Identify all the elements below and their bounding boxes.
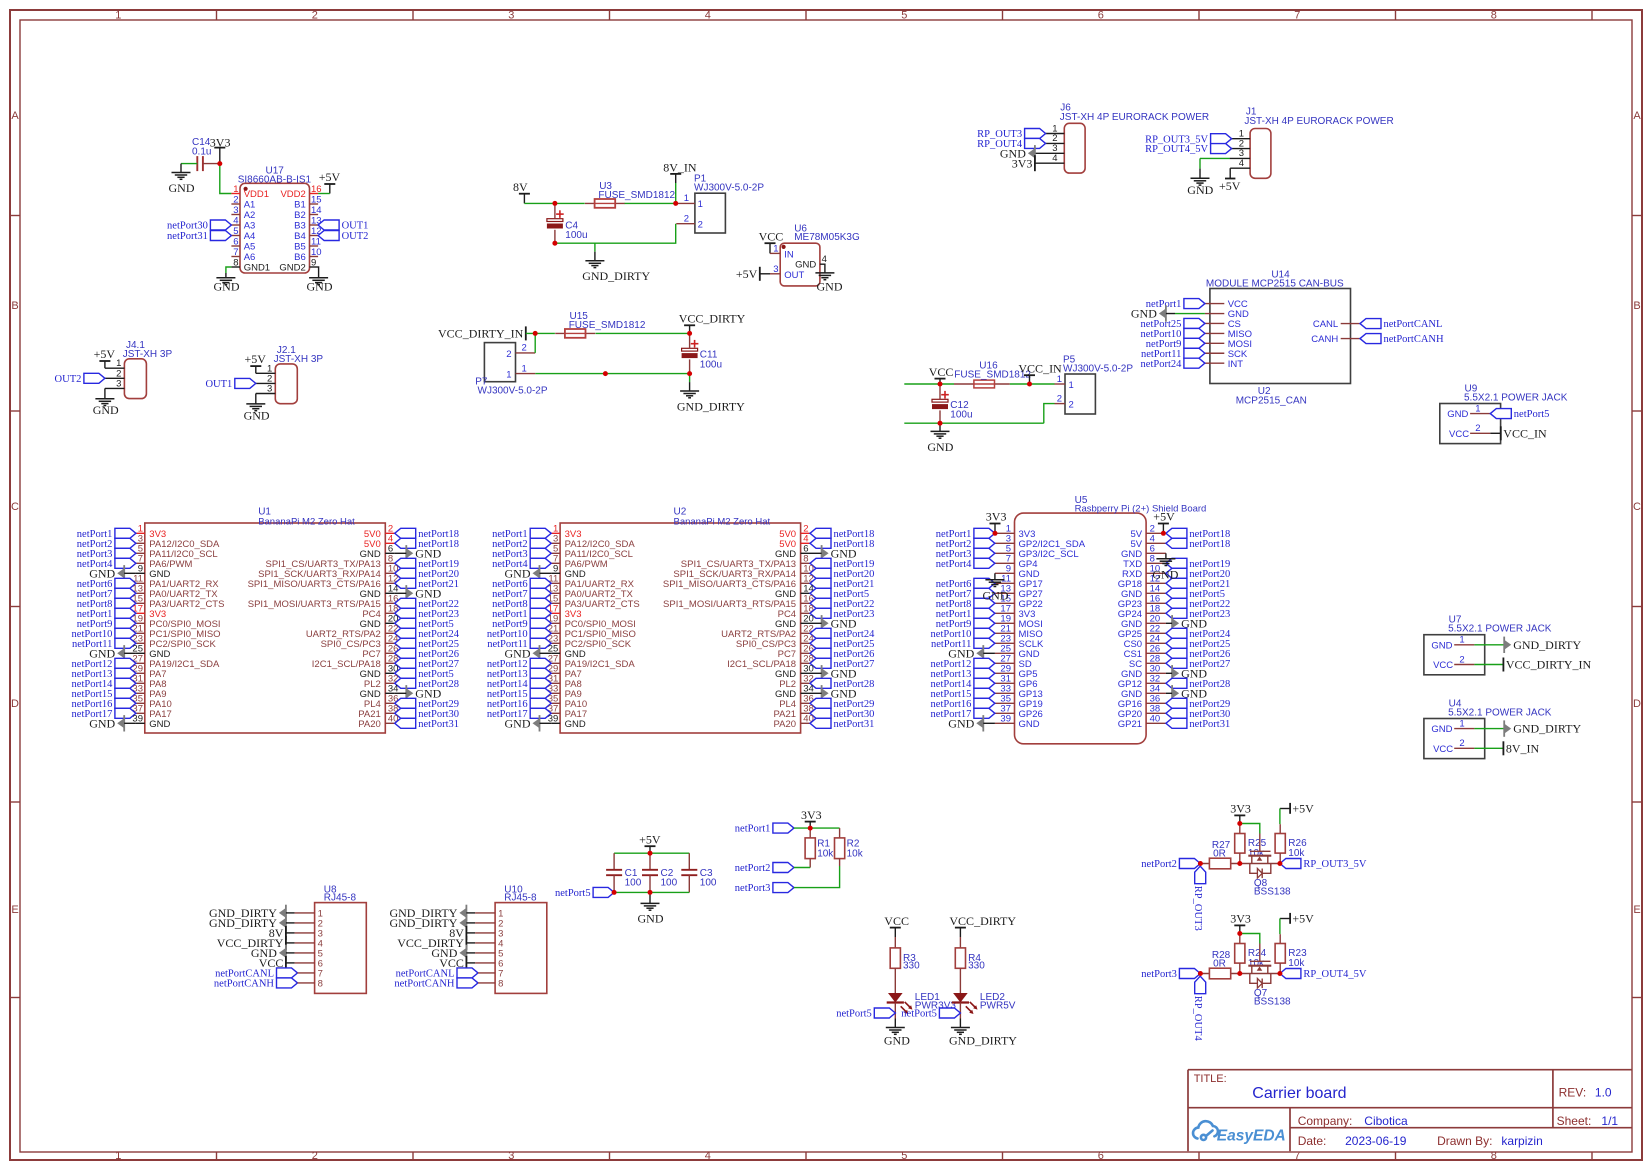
junction [1027, 382, 1032, 387]
power flag +5V [645, 845, 656, 847]
svg-text:E: E [11, 904, 18, 916]
power flag 8V [285, 926, 287, 940]
net port netPort2 [773, 863, 794, 873]
resistor R3 [894, 937, 896, 948]
power flag 3V3 [1234, 924, 1245, 926]
svg-text:6: 6 [1098, 10, 1104, 22]
svg-text:3: 3 [508, 1150, 514, 1162]
net port netPort28 [810, 678, 831, 688]
net port netPort15 [115, 688, 136, 698]
pin 12 B4 [310, 235, 319, 237]
svg-text:MODULE MCP2515 CAN-BUS: MODULE MCP2515 CAN-BUS [1206, 279, 1344, 290]
net port netPort11 [530, 638, 551, 648]
pin 27 PA19/I2C1_SDA [551, 662, 560, 664]
svg-text:3: 3 [773, 264, 778, 275]
net port netPort24 [1166, 628, 1187, 638]
pin 8 SPI1_CS/UART3_TX/PA13 [385, 562, 394, 564]
svg-text:9: 9 [311, 257, 316, 268]
net port RP_OUT3_5V [1280, 859, 1301, 869]
svg-text:+5V: +5V [1292, 801, 1314, 815]
net port netPort1 [974, 608, 995, 618]
net port RP_OUT4 [1195, 976, 1206, 994]
pin 15 PA3/UART2_CTS [136, 602, 145, 604]
net port netPort25 [395, 638, 416, 648]
fuse U16 FUSE_SMD1812 [954, 383, 1010, 385]
net port netPort29 [1166, 698, 1187, 708]
net port RP_OUT4_5V [1211, 144, 1232, 154]
svg-text:GND: GND [1187, 183, 1213, 197]
svg-text:8: 8 [318, 979, 323, 990]
junction [1237, 931, 1242, 936]
net port netPort23 [810, 608, 831, 618]
net port netPort17 [115, 708, 136, 718]
svg-text:100: 100 [661, 878, 678, 889]
pin 22 UART2_RTS/PA2 [801, 632, 810, 634]
wire [298, 972, 315, 974]
net port netPort18 [395, 528, 416, 538]
wire [614, 891, 689, 893]
net port netPort5 [395, 618, 416, 628]
wire [810, 552, 822, 554]
pin 2 [1232, 148, 1251, 150]
net port netPortCANL [1360, 319, 1381, 329]
svg-text:WJ300V-5.0-2P: WJ300V-5.0-2P [478, 386, 548, 397]
svg-text:3V3: 3V3 [801, 808, 822, 822]
svg-text:1: 1 [1057, 374, 1062, 385]
pin 1 IN [769, 243, 771, 253]
connector P7 WJ300V-5.0-2P [484, 343, 515, 382]
wire [675, 183, 677, 203]
svg-text:3V3: 3V3 [1230, 802, 1251, 816]
pin 4 5V0 [801, 542, 810, 544]
power flag +5V [1289, 913, 1291, 924]
net port netPort2 [974, 538, 995, 548]
svg-text:1: 1 [522, 363, 527, 374]
resistor R28 [1209, 968, 1230, 979]
pin 14 GND [385, 592, 394, 594]
svg-text:netPort31: netPort31 [1189, 719, 1230, 730]
svg-text:6: 6 [233, 236, 238, 247]
pin 33 PA9 [136, 692, 145, 694]
svg-text:+5V: +5V [319, 170, 341, 184]
pin 21 PC1/SPI0_MISO [551, 632, 560, 634]
resistor R2 [839, 828, 841, 838]
svg-text:0R: 0R [1213, 849, 1226, 860]
svg-text:10k: 10k [1248, 848, 1265, 859]
resistor R4 [959, 937, 961, 948]
power flag 8V_IN [1502, 741, 1504, 755]
wire [596, 332, 690, 334]
net port netPort18 [1166, 528, 1187, 538]
connector U9 5.5X2.1 POWER JACK [1440, 404, 1501, 444]
ground [226, 267, 232, 273]
net port netPort2 [1179, 859, 1200, 869]
svg-text:5.5X2.1 POWER JACK: 5.5X2.1 POWER JACK [1464, 392, 1568, 403]
pin 4 [1230, 167, 1250, 169]
net port netPort20 [395, 568, 416, 578]
junction [938, 382, 943, 387]
svg-text:B: B [1633, 300, 1640, 312]
svg-text:FUSE_SMD1812: FUSE_SMD1812 [598, 190, 675, 201]
pin 7 PA6/PWM [551, 562, 560, 564]
net port netPort2 [530, 538, 551, 548]
wire [794, 867, 810, 869]
svg-text:4: 4 [822, 254, 827, 265]
pin 2 [676, 223, 695, 225]
pin 29 GP5 [995, 672, 1015, 674]
net port netPort1 [773, 823, 794, 833]
svg-text:WJ300V-5.0-2P: WJ300V-5.0-2P [1063, 363, 1133, 374]
net port RP_OUT3 [1025, 129, 1046, 139]
svg-text:karpizin: karpizin [1501, 1134, 1542, 1148]
pin 3 [256, 393, 275, 395]
svg-text:GND: GND [1431, 724, 1452, 735]
pin 25 GND [995, 652, 1015, 654]
net port OUT2 [84, 373, 105, 383]
svg-text:B6: B6 [294, 252, 306, 263]
power flag 3V3 [805, 821, 816, 823]
net port netPort11 [974, 638, 995, 648]
svg-text:8V_IN: 8V_IN [1506, 741, 1540, 755]
capacitor C3 [688, 853, 690, 870]
net port netPort5 [939, 1008, 960, 1018]
net port netPort29 [395, 698, 416, 708]
svg-text:WJ300V-5.0-2P: WJ300V-5.0-2P [694, 183, 764, 194]
junction [938, 421, 943, 426]
wire [466, 922, 475, 924]
svg-text:GND_DIRTY: GND_DIRTY [389, 916, 457, 930]
svg-text:SPI1_MOSI/UART3_RTS/PA15: SPI1_MOSI/UART3_RTS/PA15 [248, 599, 381, 610]
svg-text:A1: A1 [244, 200, 256, 211]
pin 1 VCC [1205, 303, 1224, 305]
net port netPort9 [115, 618, 136, 628]
gnd flag GND [405, 685, 407, 701]
pin 1 [1035, 133, 1064, 135]
ground [815, 272, 834, 274]
svg-text:RP_OUT4_5V: RP_OUT4_5V [1303, 969, 1366, 980]
pin 22 GP25 [1146, 632, 1166, 634]
pin 3 [1035, 152, 1064, 154]
net port netPort21 [1166, 578, 1187, 588]
svg-text:5.5X2.1 POWER JACK: 5.5X2.1 POWER JACK [1448, 707, 1552, 718]
gnd flag GND [405, 585, 407, 601]
svg-text:A3: A3 [244, 221, 256, 232]
pin 31 PA8 [136, 682, 145, 684]
capacitor C14 [196, 156, 198, 171]
net port netPort9 [1184, 338, 1205, 348]
pin 39 GND [551, 722, 560, 724]
pin 14 GND [1146, 592, 1166, 594]
pin 36 GP16 [1146, 702, 1166, 704]
pin 13 PA0/UART2_TX [136, 592, 145, 594]
svg-text:VCC_DIRTY_IN: VCC_DIRTY_IN [438, 326, 524, 340]
LED LED2 [953, 993, 968, 1003]
svg-text:2023-06-19: 2023-06-19 [1345, 1134, 1407, 1148]
net port netPort17 [974, 708, 995, 718]
connector J4.1 JST-XH 3P [124, 359, 146, 399]
pin 2 VCC [1454, 747, 1474, 749]
ground [104, 388, 106, 398]
svg-text:GND: GND [1019, 719, 1040, 730]
wire [794, 866, 840, 888]
wire [904, 422, 1044, 424]
svg-text:2: 2 [1459, 738, 1464, 749]
pin 23 PC2/SPI0_SCK [136, 642, 145, 644]
power flag VCC [765, 242, 776, 244]
net port netPort24 [395, 628, 416, 638]
svg-text:netPort4: netPort4 [936, 559, 972, 570]
net port netPort3 [773, 883, 794, 893]
net port netPort19 [395, 558, 416, 568]
svg-text:C: C [11, 501, 19, 513]
svg-text:+5V: +5V [639, 832, 661, 846]
pin 9 GND2 [310, 266, 319, 268]
net port netPort18 [810, 528, 831, 538]
svg-text:TITLE:: TITLE: [1194, 1073, 1227, 1085]
wire [1166, 672, 1172, 674]
net port OUT2 [318, 231, 339, 241]
svg-text:netPortCANH: netPortCANH [1384, 334, 1445, 345]
net port netPort19 [1166, 558, 1187, 568]
svg-text:+5V: +5V [94, 347, 116, 361]
pin 23 PC2/SPI0_SCK [551, 642, 560, 644]
junction [612, 890, 617, 895]
svg-text:VCC_DIRTY: VCC_DIRTY [949, 914, 1016, 928]
wire [286, 932, 295, 934]
wire [478, 982, 495, 984]
svg-text:3: 3 [116, 378, 121, 389]
pin 28 SC [1146, 662, 1166, 664]
wire [1474, 747, 1503, 749]
wire [1279, 919, 1281, 935]
junction [552, 241, 557, 246]
wire [1474, 728, 1504, 730]
net port netPort21 [395, 578, 416, 588]
wire [466, 912, 475, 914]
power flag +5V [250, 365, 261, 367]
pin 1 GND [1470, 413, 1490, 415]
svg-text:B4: B4 [294, 231, 306, 242]
net port netPort12 [974, 658, 995, 668]
power flag VCC_DIRTY [955, 927, 966, 929]
gnd flag GND [285, 945, 287, 961]
svg-text:OUT1: OUT1 [342, 221, 369, 232]
svg-text:GND: GND [983, 589, 1009, 603]
net port netPort30 [810, 708, 831, 718]
gnd flag GND_DIRTY [465, 905, 467, 921]
pin 1 [105, 367, 125, 369]
wire [540, 722, 552, 724]
wire [535, 373, 689, 375]
wire [124, 572, 136, 574]
svg-text:INT: INT [1228, 359, 1244, 370]
svg-text:8: 8 [498, 979, 503, 990]
net port netPort14 [974, 678, 995, 688]
svg-text:GND: GND [565, 719, 586, 730]
svg-text:GND_DIRTY: GND_DIRTY [209, 916, 277, 930]
pin 8 SPI1_CS/UART3_TX/PA13 [801, 562, 810, 564]
pin 15 PA3/UART2_CTS [551, 602, 560, 604]
svg-text:B1: B1 [294, 200, 306, 211]
junction [648, 851, 653, 856]
pin 18 GP24 [1146, 612, 1166, 614]
ground [1199, 158, 1201, 168]
svg-text:2: 2 [684, 214, 689, 225]
svg-text:10k: 10k [1288, 958, 1305, 969]
svg-text:GND: GND [89, 716, 115, 730]
wire [1010, 383, 1055, 385]
ground [649, 892, 651, 903]
svg-text:330: 330 [968, 960, 985, 971]
net port netPort23 [1166, 608, 1187, 618]
pin 3 PA12/I2C0_SDA [551, 542, 560, 544]
junction [1198, 861, 1203, 866]
svg-text:VCC_DIRTY_IN: VCC_DIRTY_IN [1506, 658, 1592, 672]
pin 5 MOSI [1205, 342, 1224, 344]
pin 38 PA21 [385, 712, 394, 714]
wire [286, 952, 295, 954]
svg-text:netPort31: netPort31 [834, 719, 875, 730]
net port netPort7 [115, 588, 136, 598]
net port netPort1 [530, 608, 551, 618]
gnd flag GND [821, 685, 823, 701]
pin 8 TXD [1146, 562, 1166, 564]
pin 7 INT [1205, 362, 1224, 364]
net port netPort8 [974, 598, 995, 608]
svg-text:GND_DIRTY: GND_DIRTY [949, 1034, 1017, 1048]
svg-text:+5V: +5V [1219, 179, 1241, 193]
svg-text:3: 3 [233, 205, 238, 216]
svg-text:8: 8 [1491, 10, 1497, 22]
svg-text:BSS138: BSS138 [1254, 997, 1291, 1008]
svg-text:3: 3 [508, 10, 514, 22]
net port netPort20 [810, 568, 831, 578]
net port netPort4 [115, 558, 136, 568]
svg-text:GP21: GP21 [1118, 719, 1142, 730]
gnd flag GND [1165, 305, 1167, 321]
svg-text:JST-XH 3P: JST-XH 3P [123, 349, 173, 360]
junction [1237, 861, 1242, 866]
ground GND [894, 1019, 896, 1028]
pin 37 PA17 [551, 712, 560, 714]
net port netPort15 [974, 688, 995, 698]
svg-text:GND: GND [1152, 568, 1178, 582]
svg-text:netPort3: netPort3 [735, 883, 771, 894]
svg-text:2: 2 [506, 349, 511, 360]
pin 16 GP23 [1146, 602, 1166, 604]
pin 17 3V3 [136, 612, 145, 614]
svg-text:7: 7 [233, 247, 238, 258]
svg-text:RP_OUT4: RP_OUT4 [1192, 996, 1203, 1042]
pin 20 GND [385, 622, 394, 624]
net port netPort27 [810, 658, 831, 668]
pin 5 GP3/I2C_SCL [995, 552, 1015, 554]
connector U8 RJ45-8 [315, 903, 367, 994]
svg-text:8V: 8V [513, 180, 528, 194]
svg-text:8: 8 [233, 257, 238, 268]
net port netPort14 [530, 678, 551, 688]
pin 10 SPI1_SCK/UART3_RX/PA14 [801, 572, 810, 574]
svg-text:OUT2: OUT2 [55, 374, 82, 385]
pin 3 PA12/I2C0_SDA [136, 542, 145, 544]
svg-text:1: 1 [1069, 380, 1074, 391]
junction [687, 331, 692, 336]
svg-text:GND: GND [214, 279, 240, 293]
junction [673, 201, 678, 206]
ground [994, 573, 996, 579]
svg-text:SI8660AB-B-IS1: SI8660AB-B-IS1 [238, 175, 312, 186]
pin 1 3V3 [551, 532, 560, 534]
net port netPort20 [1166, 568, 1187, 578]
gnd flag GND [123, 715, 125, 731]
svg-text:A6: A6 [244, 252, 256, 263]
net port netPort16 [530, 698, 551, 708]
pin 26 PC7 [385, 652, 394, 654]
svg-text:3V3: 3V3 [986, 510, 1007, 524]
gnd flag GND [405, 545, 407, 561]
net port netPort6 [974, 578, 995, 588]
pin 17 3V3 [995, 612, 1015, 614]
svg-text:1.0: 1.0 [1595, 1086, 1612, 1100]
net port netPort25 [810, 638, 831, 648]
pin 9 GND [995, 572, 1015, 574]
net port netPort27 [1166, 658, 1187, 668]
net port netPort26 [395, 648, 416, 658]
pin 24 SPI0_CS/PC3 [801, 642, 810, 644]
power flag 3V3 [214, 147, 225, 149]
pin 34 GND [385, 692, 394, 694]
gnd flag GND [821, 615, 823, 631]
junction [1237, 821, 1242, 826]
pin 11 PA1/UART2_RX [136, 582, 145, 584]
net port netPort5 [810, 588, 831, 598]
svg-text:netPort2: netPort2 [1141, 859, 1177, 870]
pin 30 GND [1146, 672, 1166, 674]
svg-text:A: A [1633, 110, 1641, 122]
net port netPort22 [395, 598, 416, 608]
power flag +5V [1229, 168, 1231, 178]
svg-text:PWR5V: PWR5V [980, 1000, 1016, 1011]
svg-text:MCP2515_CAN: MCP2515_CAN [1236, 395, 1307, 406]
svg-text:BSS138: BSS138 [1254, 887, 1291, 898]
junction [687, 371, 692, 376]
pin 6 SCK [1205, 352, 1224, 354]
connector J1 JST-XH 4P EURORACK POWER [1250, 129, 1271, 179]
svg-text:2: 2 [1459, 654, 1464, 665]
svg-text:Company:: Company: [1298, 1114, 1353, 1128]
power flag 8V [465, 926, 467, 940]
net port netPort5 [1166, 588, 1187, 598]
ground GND_DIRTY [594, 243, 596, 252]
pin 5 A4 [231, 235, 240, 237]
net port netPort5 [593, 887, 614, 897]
svg-text:GND: GND [1447, 409, 1468, 420]
svg-text:GND: GND [93, 403, 119, 417]
svg-text:3V3: 3V3 [210, 135, 231, 149]
net port netPort3 [530, 548, 551, 558]
pin 13 GP27 [995, 592, 1015, 594]
net port netPort18 [395, 538, 416, 548]
svg-text:netPort31: netPort31 [167, 231, 208, 242]
wire [318, 193, 330, 195]
wire [466, 932, 475, 934]
svg-text:IN: IN [784, 249, 794, 260]
svg-text:40: 40 [1150, 714, 1161, 725]
svg-text:RP_OUT3_5V: RP_OUT3_5V [1303, 859, 1366, 870]
svg-text:B2: B2 [294, 210, 306, 221]
pin 5 PA11/I2C0_SCL [551, 552, 560, 554]
svg-text:1: 1 [115, 1150, 121, 1162]
